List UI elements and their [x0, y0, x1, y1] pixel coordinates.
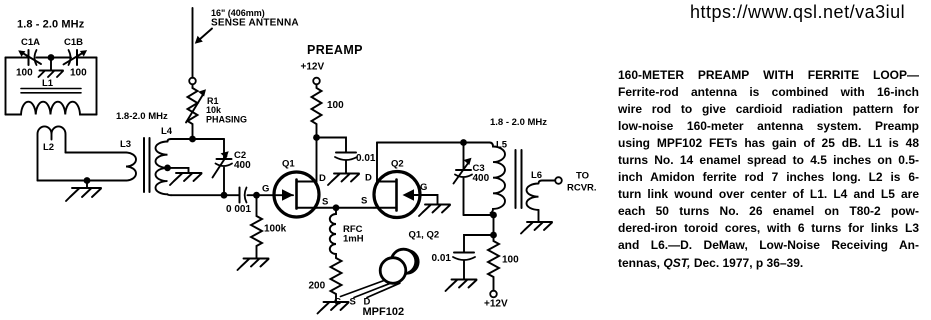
node rotor junction: [48, 54, 55, 61]
svg-text:L1: L1: [42, 78, 54, 89]
svg-text:G: G: [262, 184, 269, 195]
ground bypass cap: [328, 174, 359, 186]
svg-text:L6: L6: [531, 170, 542, 181]
svg-text:S: S: [361, 196, 367, 207]
wire drain node down to Q1: [316, 138, 318, 182]
ground under 200: [318, 302, 349, 314]
terminal +12V circle: [313, 78, 320, 85]
node L4 tap: [164, 165, 171, 172]
caption paragraph: [618, 67, 919, 272]
svg-text:Q1, Q2: Q1, Q2: [409, 230, 440, 241]
wire L4 right side lower: [223, 168, 225, 196]
svg-text:L2: L2: [43, 142, 54, 153]
capacitor C1B: [64, 50, 88, 65]
wire L6 bottom to ground: [538, 210, 540, 222]
inductor L6 winding: [527, 181, 543, 210]
node drain junction: [313, 134, 320, 141]
svg-text:400: 400: [234, 160, 251, 171]
node gate junction: [253, 192, 260, 199]
capacitor 0.01 bypass (Q1 drain): [335, 153, 357, 161]
node tank bottom junction: [490, 212, 497, 219]
wire L4 right side upper: [223, 139, 225, 159]
inductor L4 winding: [155, 142, 167, 195]
inductor L1 winding: [6, 102, 97, 115]
arrow to antenna wire: [200, 29, 213, 40]
svg-text:100: 100: [327, 100, 344, 111]
wire L4 top: [171, 138, 224, 140]
resistor 100k: [251, 195, 262, 258]
wire L6 top to terminal: [542, 180, 555, 182]
capacitor 0.01 decoupling: [453, 253, 475, 261]
transformer core L3-L4: [144, 138, 150, 192]
caption URL text: [690, 2, 905, 23]
wire circle to R1: [192, 84, 194, 88]
wire L2 to L3 top: [66, 152, 127, 154]
svg-text:PREAMP: PREAMP: [307, 43, 363, 57]
ground Q2 gate: [419, 205, 450, 217]
inductor L3 winding: [126, 153, 136, 181]
resistor 100 (supply right): [488, 235, 499, 291]
svg-text:D: D: [365, 173, 372, 184]
wire loop box top-left segment: [6, 57, 29, 59]
capacitor 0.001 coupling: [240, 188, 247, 203]
capacitor C3: [454, 143, 473, 216]
svg-text:S: S: [322, 197, 328, 208]
wire top run to L5: [377, 142, 490, 144]
svg-text:TO: TO: [576, 171, 589, 182]
wire L4 top corner: [168, 139, 172, 142]
svg-text:+12V: +12V: [301, 62, 325, 73]
wire L4 bottom: [171, 194, 239, 196]
wire top-mid segment: [37, 57, 72, 59]
svg-text:100: 100: [502, 255, 519, 266]
wire L5 bottom: [464, 214, 494, 216]
svg-text:200: 200: [309, 281, 326, 292]
wire Q2 gate to ground: [414, 195, 438, 205]
node ground tap: [84, 177, 91, 184]
wire cap to ground: [463, 261, 465, 280]
node C2 bottom junction: [221, 192, 228, 199]
wire decoupling node left: [464, 235, 494, 253]
terminal antenna circle: [189, 78, 196, 85]
wire drain node to bypass cap: [317, 138, 347, 153]
node C3 top junction: [460, 139, 467, 146]
svg-text:Q2: Q2: [391, 159, 404, 170]
terminal +12V circle (right): [490, 291, 497, 298]
transistor Q2: [374, 172, 420, 218]
capacitor C2: [213, 151, 233, 177]
ground decoupling cap: [446, 280, 477, 292]
svg-text:10k: 10k: [206, 105, 222, 115]
svg-text:1mH: 1mH: [343, 234, 364, 245]
inductor L2 winding: [38, 126, 66, 180]
svg-text:1.8 - 2.0 MHz: 1.8 - 2.0 MHz: [17, 19, 85, 31]
svg-text:0.01: 0.01: [356, 153, 376, 164]
wire tank bottom down: [493, 215, 495, 235]
ground L6: [521, 222, 552, 234]
wire box left side: [5, 58, 7, 115]
wire cap to gate node: [248, 194, 294, 196]
inductor L5 winding: [490, 143, 506, 214]
wire L4 tap to ground: [168, 168, 189, 173]
svg-text:0.01: 0.01: [432, 253, 452, 264]
inductor L1 core: [21, 89, 81, 93]
svg-text:100: 100: [16, 68, 33, 79]
node R1 bottom junction: [189, 136, 196, 143]
svg-text:100k: 100k: [264, 224, 287, 235]
svg-text:C1B: C1B: [64, 37, 83, 48]
antenna wire: [192, 8, 194, 78]
ground rotor chassis: [39, 71, 64, 78]
wire source run Q1 to Q2: [317, 207, 375, 209]
capacitor C1A: [18, 50, 41, 65]
svg-text:G: G: [334, 297, 341, 308]
svg-text:+12V: +12V: [484, 299, 508, 310]
wire bottom return L3 to L2: [38, 180, 127, 182]
svg-text:1.8-2.0 MHz: 1.8-2.0 MHz: [116, 111, 168, 122]
node source junction: [333, 204, 340, 211]
svg-text:0 001: 0 001: [226, 204, 251, 215]
svg-text:S: S: [350, 297, 356, 308]
svg-text:400: 400: [473, 173, 490, 184]
transformer core L5-L6: [516, 150, 522, 208]
ground under 100k: [238, 259, 269, 271]
wire Q2 drain up: [376, 143, 378, 182]
svg-text:SENSE ANTENNA: SENSE ANTENNA: [211, 18, 299, 29]
svg-text:G: G: [420, 182, 427, 193]
svg-text:L4: L4: [161, 126, 173, 137]
svg-text:Q1: Q1: [282, 159, 295, 170]
svg-text:16" (406mm): 16" (406mm): [211, 8, 265, 18]
svg-text:D: D: [319, 173, 326, 184]
wire top-right segment: [77, 57, 97, 59]
resistor 100 (drain): [312, 84, 322, 137]
transistor package MPF102: [341, 249, 419, 297]
svg-text:L3: L3: [120, 139, 131, 150]
svg-text:1.8 - 2.0 MHz: 1.8 - 2.0 MHz: [490, 117, 547, 128]
potentiometer R1: [186, 88, 206, 136]
wire ground stub: [86, 181, 88, 189]
terminal TO RCVR circle: [555, 177, 562, 184]
svg-text:C1A: C1A: [21, 37, 40, 48]
node decoupling junction: [490, 232, 497, 239]
wire cap to ground: [345, 161, 347, 174]
resistor 200: [331, 258, 342, 302]
ground under L2-L3 loop: [66, 188, 101, 201]
ground L4 tap: [170, 173, 202, 185]
transistor Q1: [274, 172, 319, 217]
wire box right side: [96, 58, 98, 115]
svg-text:PHASING: PHASING: [206, 115, 247, 125]
inductor RFC: [330, 208, 336, 258]
wire rotor stub: [50, 60, 52, 71]
wire L4 bottom corner: [168, 193, 172, 196]
svg-text:RCVR.: RCVR.: [567, 183, 597, 194]
svg-text:MPF102: MPF102: [363, 306, 405, 318]
svg-text:100: 100: [70, 68, 87, 79]
